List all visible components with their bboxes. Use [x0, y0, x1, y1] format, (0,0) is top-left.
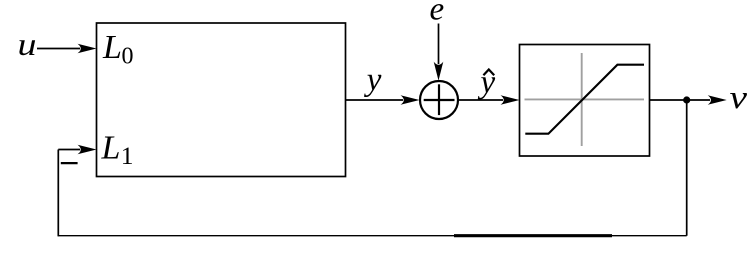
label L1	[101, 129, 134, 170]
block L0/L1 (plant box)	[97, 23, 346, 177]
svg-text:y: y	[478, 65, 496, 101]
wire feedback into L1	[58, 149, 80, 151]
label yhat	[478, 65, 496, 101]
saturation block	[520, 45, 650, 157]
saturation axis horizontal (gray)	[525, 98, 645, 100]
wire v output	[650, 99, 711, 101]
saturation curve	[525, 65, 644, 134]
svg-text:v: v	[730, 80, 748, 116]
wire e (down into summer)	[438, 24, 440, 65]
wire feedback bottom	[58, 235, 686, 237]
minus sign	[61, 162, 78, 164]
svg-text:L: L	[102, 29, 122, 66]
svg-text:u: u	[18, 26, 37, 62]
wire feedback bottom thick overlap	[454, 234, 612, 237]
wire feedback up	[57, 150, 59, 237]
svg-text:L: L	[101, 129, 121, 166]
wire feedback down	[686, 100, 688, 236]
label L0	[102, 29, 134, 70]
wire yhat (summer to saturation)	[457, 99, 503, 101]
svg-text:y: y	[364, 62, 382, 98]
wire y (box to summer)	[346, 99, 404, 101]
summing junction	[420, 81, 458, 119]
node junction dot	[683, 96, 690, 103]
svg-text:e: e	[430, 0, 445, 28]
svg-text:0: 0	[122, 43, 134, 69]
saturation axis vertical (gray)	[581, 53, 583, 146]
svg-text:1: 1	[121, 141, 134, 170]
wire u input	[37, 48, 80, 50]
